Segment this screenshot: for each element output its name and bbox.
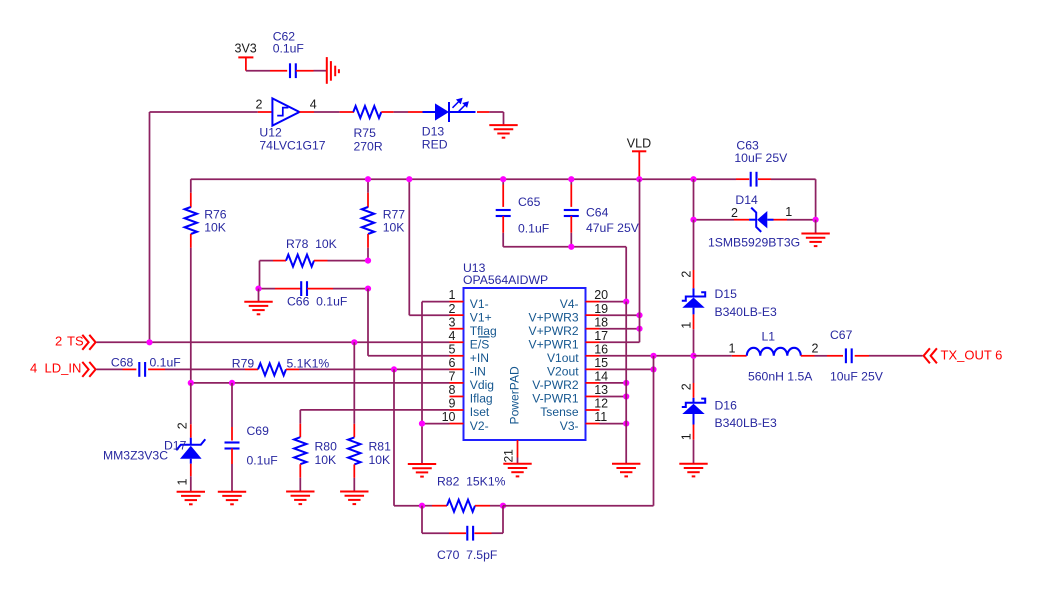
schottky diode D16 B340LB-E3: [680, 383, 777, 464]
svg-text:L1: L1: [762, 329, 776, 343]
wire V4- rail down to ground: [625, 302, 627, 464]
svg-text:V-PWR1: V-PWR1: [532, 392, 579, 406]
svg-text:15: 15: [594, 356, 608, 370]
svg-text:16: 16: [594, 342, 608, 356]
svg-text:10uF 25V: 10uF 25V: [734, 151, 788, 165]
svg-text:PowerPAD: PowerPAD: [508, 366, 522, 425]
junction V4- node: [623, 299, 629, 305]
wire D14 node down to D15: [693, 220, 695, 289]
wire R78 left down to C66 node: [259, 261, 261, 289]
ground at D16: [679, 464, 707, 477]
svg-text:U12: U12: [259, 126, 282, 140]
junction C64 bottom: [568, 244, 574, 250]
svg-text:V1-: V1-: [470, 297, 489, 311]
junction V1out/feedback: [650, 353, 656, 359]
ground at D17: [177, 492, 205, 505]
wire R79 to pin 6 -IN: [299, 368, 450, 370]
svg-text:2: 2: [680, 383, 694, 390]
junction V+PWR2 node: [636, 326, 642, 332]
wire TS node up to U12 input: [150, 112, 258, 342]
capacitor C65: [496, 179, 549, 247]
junction Vdig / R76-D17: [188, 380, 194, 386]
svg-text:Iflag: Iflag: [470, 392, 493, 406]
junction Vdig / C69: [229, 380, 235, 386]
svg-text:D13: D13: [422, 125, 445, 139]
wire R82 to feedback vertical: [503, 505, 654, 507]
wire V+PWR1 pin 17 up to VLD rail: [600, 179, 640, 342]
wire -IN node down to R82: [394, 369, 422, 505]
svg-text:V4-: V4-: [560, 297, 579, 311]
svg-text:D15: D15: [715, 287, 738, 301]
junction C64 top on rail: [568, 176, 574, 182]
svg-text:R75: R75: [354, 126, 377, 140]
junction V+PWR3 node: [636, 312, 642, 318]
svg-text:10K: 10K: [369, 453, 391, 467]
junction V-PWR1 node: [623, 393, 629, 399]
wire V+PWR2 pin 18: [600, 328, 640, 330]
wire R75 to D13: [394, 111, 423, 113]
wire LD_IN to C68: [97, 368, 137, 370]
ground at pin 21: [503, 464, 531, 477]
wire Vdig node down to D17: [190, 383, 192, 438]
svg-text:11: 11: [594, 410, 607, 424]
svg-text:Vdig: Vdig: [470, 378, 494, 392]
svg-text:C69: C69: [247, 424, 270, 438]
svg-text:5.1K1%: 5.1K1%: [287, 356, 330, 370]
wire C62 to ground: [314, 70, 327, 72]
ground at V2-: [408, 464, 436, 477]
svg-text:2: 2: [812, 341, 819, 355]
wire C66 node to ground: [258, 289, 260, 302]
svg-text:1: 1: [680, 322, 694, 329]
svg-text:2: 2: [256, 97, 263, 111]
svg-text:560nH 1.5A: 560nH 1.5A: [748, 370, 813, 384]
wire C69 branch: [231, 383, 233, 441]
junction R82 right / C70: [500, 503, 506, 509]
junction pin2 branch on rail: [406, 176, 412, 182]
ground at C66: [244, 302, 272, 315]
wire feedback vertical: [653, 356, 655, 506]
wire C68 to R79: [165, 368, 258, 370]
svg-text:+IN: +IN: [470, 351, 489, 365]
power 3V3: [235, 42, 257, 71]
svg-text:D16: D16: [715, 399, 738, 413]
resistor R77: [362, 179, 405, 260]
junction V2out node: [650, 366, 656, 372]
junction C63 branch on rail: [690, 176, 696, 182]
wire top rail: [191, 178, 736, 180]
wire V4- pin 20: [600, 301, 627, 303]
svg-text:V+PWR3: V+PWR3: [529, 310, 579, 324]
wire D13 to ground: [489, 112, 503, 125]
svg-text:V2-: V2-: [470, 419, 489, 433]
svg-text:270R: 270R: [354, 140, 383, 154]
wire U12 to R75: [314, 111, 340, 113]
capacitor C70: [422, 506, 503, 562]
wire rail branch down to D14 pin2: [693, 179, 695, 220]
port TX_OUT 6: [924, 348, 1003, 364]
LED D13: [422, 98, 490, 152]
wire V1out pin 16 to output node: [600, 355, 694, 357]
wire vertical R76 top: [190, 179, 192, 193]
svg-text:2: 2: [731, 206, 738, 220]
svg-text:VLD: VLD: [627, 137, 651, 151]
svg-text:10: 10: [442, 410, 456, 424]
svg-text:R82 15K1%: R82 15K1%: [437, 475, 506, 489]
svg-text:V-PWR2: V-PWR2: [532, 378, 579, 392]
wire D14 pin1 to ground: [815, 220, 817, 234]
wire +IN node down to pin 5: [368, 289, 450, 356]
svg-text:12: 12: [594, 397, 608, 411]
svg-text:10K: 10K: [204, 221, 226, 235]
ground at D13: [489, 125, 517, 138]
inductor L1 560nH: [747, 329, 819, 383]
pin 21 PowerPAD stub: [502, 440, 518, 464]
svg-text:5: 5: [449, 342, 456, 356]
svg-text:B340LB-E3: B340LB-E3: [715, 416, 778, 430]
svg-text:V3-: V3-: [560, 419, 579, 433]
svg-text:R79: R79: [232, 356, 255, 370]
resistor R75: [340, 106, 394, 154]
wire V2out pin 15: [600, 368, 654, 370]
wire L1 to C67: [801, 355, 843, 357]
svg-text:C70 7.5pF: C70 7.5pF: [437, 548, 497, 562]
junction V-PWR2 node: [623, 380, 629, 386]
wire output to L1: [694, 341, 747, 356]
svg-text:1: 1: [729, 341, 736, 355]
junction R78/R77 node: [365, 258, 371, 264]
wire Iset line to pin 9: [300, 409, 449, 411]
svg-text:V1out: V1out: [547, 351, 579, 365]
svg-text:R76: R76: [204, 208, 227, 222]
svg-text:Tsense: Tsense: [540, 405, 579, 419]
capacitor C62: [273, 29, 314, 78]
wire TS to pin 4 E/S: [97, 341, 450, 343]
resistor R80: [294, 410, 337, 492]
svg-text:2: 2: [176, 422, 190, 429]
wire V-PWR2 pin 14: [600, 382, 627, 384]
svg-text:47uF 25V: 47uF 25V: [586, 221, 640, 235]
junction D14 pin1 / C63: [813, 217, 819, 223]
capacitor C68: [111, 356, 181, 377]
resistor R79: [232, 356, 330, 375]
svg-text:MM3Z3V3C: MM3Z3V3C: [103, 449, 168, 463]
junction V2- node: [419, 421, 425, 427]
svg-text:18: 18: [594, 315, 608, 329]
svg-text:2: 2: [55, 334, 62, 349]
op-amp U13 OPA564AIDWP: [442, 261, 609, 440]
svg-text:TX_OUT 6: TX_OUT 6: [941, 348, 1003, 363]
ground at R81: [340, 492, 368, 505]
capacitor C66: [259, 281, 369, 308]
svg-text:10K: 10K: [383, 221, 405, 235]
resistor R81: [348, 342, 391, 491]
wire 3V3 to C62: [246, 70, 287, 72]
capacitor C69: [225, 424, 278, 492]
capacitor C67: [830, 328, 884, 384]
svg-text:20: 20: [594, 288, 608, 302]
svg-text:1: 1: [680, 433, 694, 440]
svg-text:14: 14: [594, 370, 608, 384]
capacitor C64: [564, 179, 640, 247]
svg-text:B340LB-E3: B340LB-E3: [715, 305, 778, 319]
ground (rotated) at C62: [327, 57, 339, 84]
svg-text:6: 6: [449, 356, 456, 370]
svg-text:74LVC1G17: 74LVC1G17: [259, 139, 325, 153]
junction D14 pin2: [690, 217, 696, 223]
svg-text:17: 17: [594, 329, 608, 343]
junction -IN / feedback node: [391, 366, 397, 372]
wire V1+ pin 2 from rail: [409, 179, 449, 315]
junction R77 top on rail: [365, 176, 371, 182]
capacitor C63: [734, 139, 815, 187]
power VLD: [627, 137, 651, 180]
ground at C69: [218, 492, 246, 505]
zener diode D17 MM3Z3V3C: [103, 422, 205, 491]
wire Vdig line to pin 7: [191, 382, 450, 384]
svg-text:3V3: 3V3: [235, 42, 257, 56]
svg-text:1: 1: [449, 288, 456, 302]
svg-text:3: 3: [449, 315, 456, 329]
svg-text:1SMB5929BT3G: 1SMB5929BT3G: [708, 236, 800, 250]
wire R76 to Vdig node: [190, 248, 192, 383]
wire V+PWR3 pin 19: [600, 314, 640, 316]
port 2 TS: [55, 334, 96, 350]
svg-text:C66 0.1uF: C66 0.1uF: [287, 295, 347, 309]
resistor R76: [185, 193, 227, 248]
svg-text:2: 2: [680, 271, 694, 278]
svg-text:19: 19: [594, 302, 608, 316]
svg-text:E/S: E/S: [470, 337, 490, 351]
svg-text:R80: R80: [315, 440, 338, 454]
svg-text:4: 4: [449, 329, 456, 343]
svg-text:TS: TS: [67, 334, 84, 349]
svg-text:C68: C68: [111, 356, 134, 370]
svg-text:9: 9: [449, 397, 456, 411]
junction V3- node: [623, 421, 629, 427]
wire V3- pin 11: [600, 423, 627, 425]
svg-text:21: 21: [502, 449, 516, 463]
svg-text:0.1uF: 0.1uF: [150, 356, 181, 370]
ground at D14: [801, 234, 829, 247]
svg-text:D14: D14: [735, 193, 758, 207]
svg-text:V+PWR1: V+PWR1: [529, 337, 579, 351]
junction R82 left / C70: [419, 503, 425, 509]
ground at R80: [286, 492, 314, 505]
svg-text:10K: 10K: [315, 453, 337, 467]
port 4 LD_IN: [30, 361, 96, 377]
svg-text:R81: R81: [369, 440, 392, 454]
svg-text:4: 4: [30, 361, 37, 376]
svg-text:10uF 25V: 10uF 25V: [830, 370, 884, 384]
svg-text:13: 13: [594, 383, 608, 397]
svg-text:2: 2: [449, 302, 456, 316]
svg-text:4: 4: [310, 97, 317, 111]
svg-text:0.1uF: 0.1uF: [273, 42, 304, 56]
svg-text:V2out: V2out: [547, 365, 579, 379]
wire C63 right down to D14 pin1: [815, 179, 817, 220]
junction C66 right / +IN node: [365, 286, 371, 292]
schottky diode D15 B340LB-E3: [680, 271, 777, 356]
svg-text:8: 8: [449, 383, 456, 397]
wire C67 to TX_OUT: [869, 355, 923, 357]
svg-text:0.1uF: 0.1uF: [518, 222, 549, 236]
resistor R78: [260, 237, 369, 267]
junction C65 top on rail: [500, 176, 506, 182]
svg-text:C64: C64: [586, 206, 609, 220]
junction C66 left: [255, 286, 261, 292]
svg-text:C67: C67: [830, 328, 853, 342]
wire V1- pin 1 to V2- pin 10 and ground: [422, 302, 450, 464]
svg-text:OPA564AIDWP: OPA564AIDWP: [463, 273, 548, 287]
zener diode D14 1SMB5929BT3G: [694, 193, 816, 250]
junction VLD on rail: [636, 176, 642, 182]
ground at V4- rail: [612, 464, 640, 477]
op-amp buffer U12 74LVC1G17: [256, 97, 326, 152]
junction output/D15/D16: [690, 353, 696, 359]
svg-text:C65: C65: [518, 195, 541, 209]
wire output node down to D16: [693, 356, 695, 398]
junction TS / R81 branch: [351, 339, 357, 345]
svg-text:V+PWR2: V+PWR2: [529, 324, 579, 338]
wire C65/C64 bottoms to V4- rail: [503, 247, 626, 302]
svg-text:0.1uF: 0.1uF: [247, 454, 278, 468]
resistor R82: [422, 475, 506, 512]
wire V-PWR1 pin 13: [600, 396, 627, 398]
svg-text:1: 1: [785, 205, 792, 219]
junction TS / U12 input node: [146, 339, 152, 345]
svg-text:RED: RED: [422, 138, 448, 152]
svg-text:Tflag: Tflag: [470, 324, 497, 338]
svg-text:LD_IN: LD_IN: [45, 361, 82, 376]
svg-text:R77: R77: [383, 208, 406, 222]
svg-text:R78 10K: R78 10K: [286, 237, 337, 251]
svg-text:1: 1: [176, 479, 190, 486]
svg-text:V1+: V1+: [470, 310, 492, 324]
svg-text:7: 7: [449, 370, 456, 384]
svg-text:Iset: Iset: [470, 405, 490, 419]
svg-text:-IN: -IN: [470, 365, 486, 379]
